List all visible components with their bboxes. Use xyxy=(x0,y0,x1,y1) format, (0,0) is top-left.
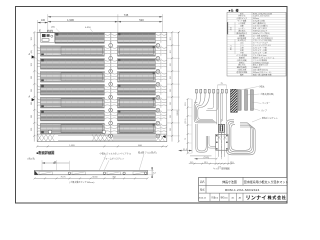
svg-text:303: 303 xyxy=(170,76,172,79)
balloon markers center channel xyxy=(109,44,113,138)
inlet connector cluster xyxy=(41,30,55,42)
svg-text:床仕上: 床仕上 xyxy=(229,45,232,50)
svg-text:60.5: 60.5 xyxy=(185,102,187,106)
svg-text:小根太: 小根太 xyxy=(259,84,265,88)
svg-text:根太間 アルミ箔(付): 根太間 アルミ箔(付) xyxy=(138,150,157,154)
svg-text:12: 12 xyxy=(153,173,156,175)
svg-text:株式会社: 株式会社 xyxy=(267,195,287,200)
svg-text:温水: 温水 xyxy=(229,27,232,31)
svg-text:温水暖房用小根太入り温水マット: 温水暖房用小根太入り温水マット xyxy=(244,179,289,184)
svg-text:A: A xyxy=(29,96,31,99)
bottom return strip xyxy=(37,130,167,141)
detail left dim chain xyxy=(185,98,191,154)
svg-text:■仕 様: ■仕 様 xyxy=(229,8,240,13)
right dimension chains xyxy=(167,31,180,142)
svg-text:2,424: 2,424 xyxy=(177,110,179,116)
pipe stub caps xyxy=(196,89,228,93)
left side dimension texts xyxy=(31,37,33,131)
detail border line xyxy=(191,99,193,153)
svg-text:1,820: 1,820 xyxy=(69,145,75,147)
svg-text:2014.12: 2014.12 xyxy=(198,197,206,199)
spec table xyxy=(227,11,286,76)
svg-text:4-R10: 4-R10 xyxy=(85,27,92,29)
balloon markers right end xyxy=(156,44,160,138)
dim 51.5 left of detail xyxy=(179,149,193,152)
svg-text:■断面詳細図: ■断面詳細図 xyxy=(37,150,55,155)
plan row 8 panels xyxy=(38,123,167,134)
svg-text:4本(4本): 4本(4本) xyxy=(27,156,35,160)
detail bottom dims xyxy=(189,150,235,170)
right vertical stubs xyxy=(238,90,253,110)
svg-text:(45): (45) xyxy=(51,27,55,29)
svg-text:303: 303 xyxy=(31,102,33,105)
svg-text:リンナイ: リンナイ xyxy=(246,196,267,202)
svg-text:小根太(根太間): 小根太(根太間) xyxy=(260,92,274,96)
svg-text:60.60: 60.60 xyxy=(92,177,98,179)
plan row 2 panels xyxy=(38,45,167,56)
plan row 7 panels xyxy=(38,110,167,121)
plan bottom dimension line xyxy=(36,145,168,148)
plan row 4 panels xyxy=(38,71,167,82)
drawing frame border xyxy=(16,7,288,204)
svg-text:303: 303 xyxy=(31,63,33,66)
Rinnai logo xyxy=(246,195,287,201)
svg-text:13.5: 13.5 xyxy=(204,162,208,164)
svg-text:(51.5): (51.5) xyxy=(204,157,210,159)
plan row 3 panels xyxy=(38,58,167,69)
dim 100 top left xyxy=(38,19,48,32)
svg-text:RDM-1.2XA-SKD2424: RDM-1.2XA-SKD2424 xyxy=(225,188,260,192)
svg-text:303: 303 xyxy=(31,37,33,40)
svg-text:ヘッダー部詳細図: ヘッダー部詳細図 xyxy=(213,167,230,171)
plan row 1 panels xyxy=(55,33,167,44)
svg-text:303: 303 xyxy=(170,50,172,53)
svg-text:303: 303 xyxy=(170,115,172,118)
left dimension chain xyxy=(33,31,37,141)
svg-text:75.75: 75.75 xyxy=(60,177,66,179)
spec table header xyxy=(229,8,240,13)
svg-text:303: 303 xyxy=(170,63,172,66)
center line dash-dot xyxy=(221,119,223,160)
small note texts above plan xyxy=(39,27,93,33)
svg-text:303: 303 xyxy=(31,128,33,131)
svg-text:1,906: 1,906 xyxy=(67,18,74,22)
svg-text:303: 303 xyxy=(31,76,33,79)
svg-text:小根太(ファルカタ+シベリアマツ): 小根太(ファルカタ+シベリアマツ) xyxy=(100,152,132,156)
section arrow B xyxy=(29,96,35,102)
svg-text:75: 75 xyxy=(185,138,187,140)
title block xyxy=(198,177,288,201)
svg-text:520: 520 xyxy=(139,18,144,22)
cross-section bar xyxy=(35,170,148,174)
svg-text:303: 303 xyxy=(31,89,33,92)
cross-section top dim 75 xyxy=(42,160,69,170)
plan row 6 panels xyxy=(38,97,167,108)
svg-text:フォームポリスチレン: フォームポリスチレン xyxy=(104,157,125,161)
plan view mat outline xyxy=(37,32,167,141)
svg-text:303: 303 xyxy=(170,128,172,131)
svg-text:パイプ: パイプ xyxy=(261,108,267,112)
svg-text:発泡ポリスチレン: 発泡ポリスチレン xyxy=(262,116,278,120)
svg-text:伸長寸法図: 伸長寸法図 xyxy=(222,179,237,184)
svg-text:11.5: 11.5 xyxy=(190,162,194,164)
plan row 5 panels xyxy=(38,84,167,95)
stub top dim 75 xyxy=(218,83,227,89)
svg-text:(45): (45) xyxy=(31,50,33,54)
svg-text:100: 100 xyxy=(41,19,46,22)
center header box xyxy=(216,124,229,157)
svg-text:(51.5): (51.5) xyxy=(185,118,187,123)
svg-text:(小根太働きピッチ303mm): (小根太働きピッチ303mm) xyxy=(69,180,94,184)
svg-text:(58): (58) xyxy=(39,29,41,33)
cross-section leader notes xyxy=(27,150,157,170)
svg-text:型式: 型式 xyxy=(240,11,244,15)
right leader labels xyxy=(240,84,278,122)
svg-text:12.5: 12.5 xyxy=(230,162,234,164)
caption cross-section xyxy=(37,150,55,155)
hatched bar xyxy=(231,89,238,112)
section arrow A xyxy=(29,53,35,59)
header detail pipe loops xyxy=(190,93,255,156)
cross-section bottom dims xyxy=(34,177,149,184)
svg-text:745: 745 xyxy=(124,13,129,17)
top dimension lines xyxy=(48,13,163,32)
cross-section thickness dim 12 xyxy=(147,167,156,177)
svg-text:303: 303 xyxy=(31,115,33,118)
svg-text:303: 303 xyxy=(170,102,172,105)
svg-text:303: 303 xyxy=(170,89,172,92)
svg-text:303: 303 xyxy=(170,37,172,40)
svg-text:ヘッダー: ヘッダー xyxy=(262,101,270,105)
